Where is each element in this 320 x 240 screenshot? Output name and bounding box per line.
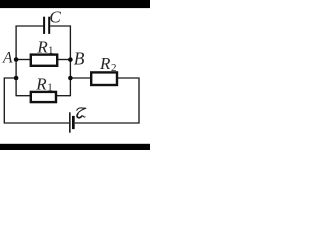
- svg-text:R: R: [36, 37, 48, 56]
- svg-text:B: B: [74, 49, 85, 69]
- wire mid left A to R1: [16, 59, 31, 61]
- wire bottom R1 row right: [56, 95, 70, 97]
- wire top loop right segment: [50, 26, 70, 96]
- wire top loop left segment: [16, 26, 43, 96]
- resistor R2: [91, 72, 117, 85]
- label EMF script E (curly E): [77, 108, 86, 118]
- wire R2 to right rail down to battery: [75, 78, 139, 123]
- wire node B to R2: [70, 77, 91, 79]
- svg-text:R: R: [35, 74, 47, 93]
- capacitor C: [43, 17, 45, 34]
- svg-text:2: 2: [111, 62, 117, 74]
- wire bottom R1 row left: [16, 95, 31, 97]
- svg-text:A: A: [2, 50, 13, 67]
- junction dot left rail lower: [14, 76, 19, 81]
- wire outer left loop: [4, 78, 69, 123]
- node B junction dot: [68, 57, 73, 62]
- svg-text:C: C: [49, 7, 61, 26]
- junction dot right rail lower: [68, 76, 73, 81]
- svg-text:R: R: [99, 54, 111, 73]
- resistor R1 (lower branch): [31, 92, 56, 102]
- resistor R1 (between A and B): [31, 55, 57, 66]
- top black border bar: [0, 0, 150, 8]
- node A junction dot: [14, 57, 19, 62]
- wire mid R1 to B: [57, 59, 70, 61]
- svg-text:1: 1: [47, 81, 53, 93]
- bottom black border bar: [0, 144, 150, 150]
- battery EMF source: [69, 112, 71, 132]
- svg-text:1: 1: [48, 45, 54, 57]
